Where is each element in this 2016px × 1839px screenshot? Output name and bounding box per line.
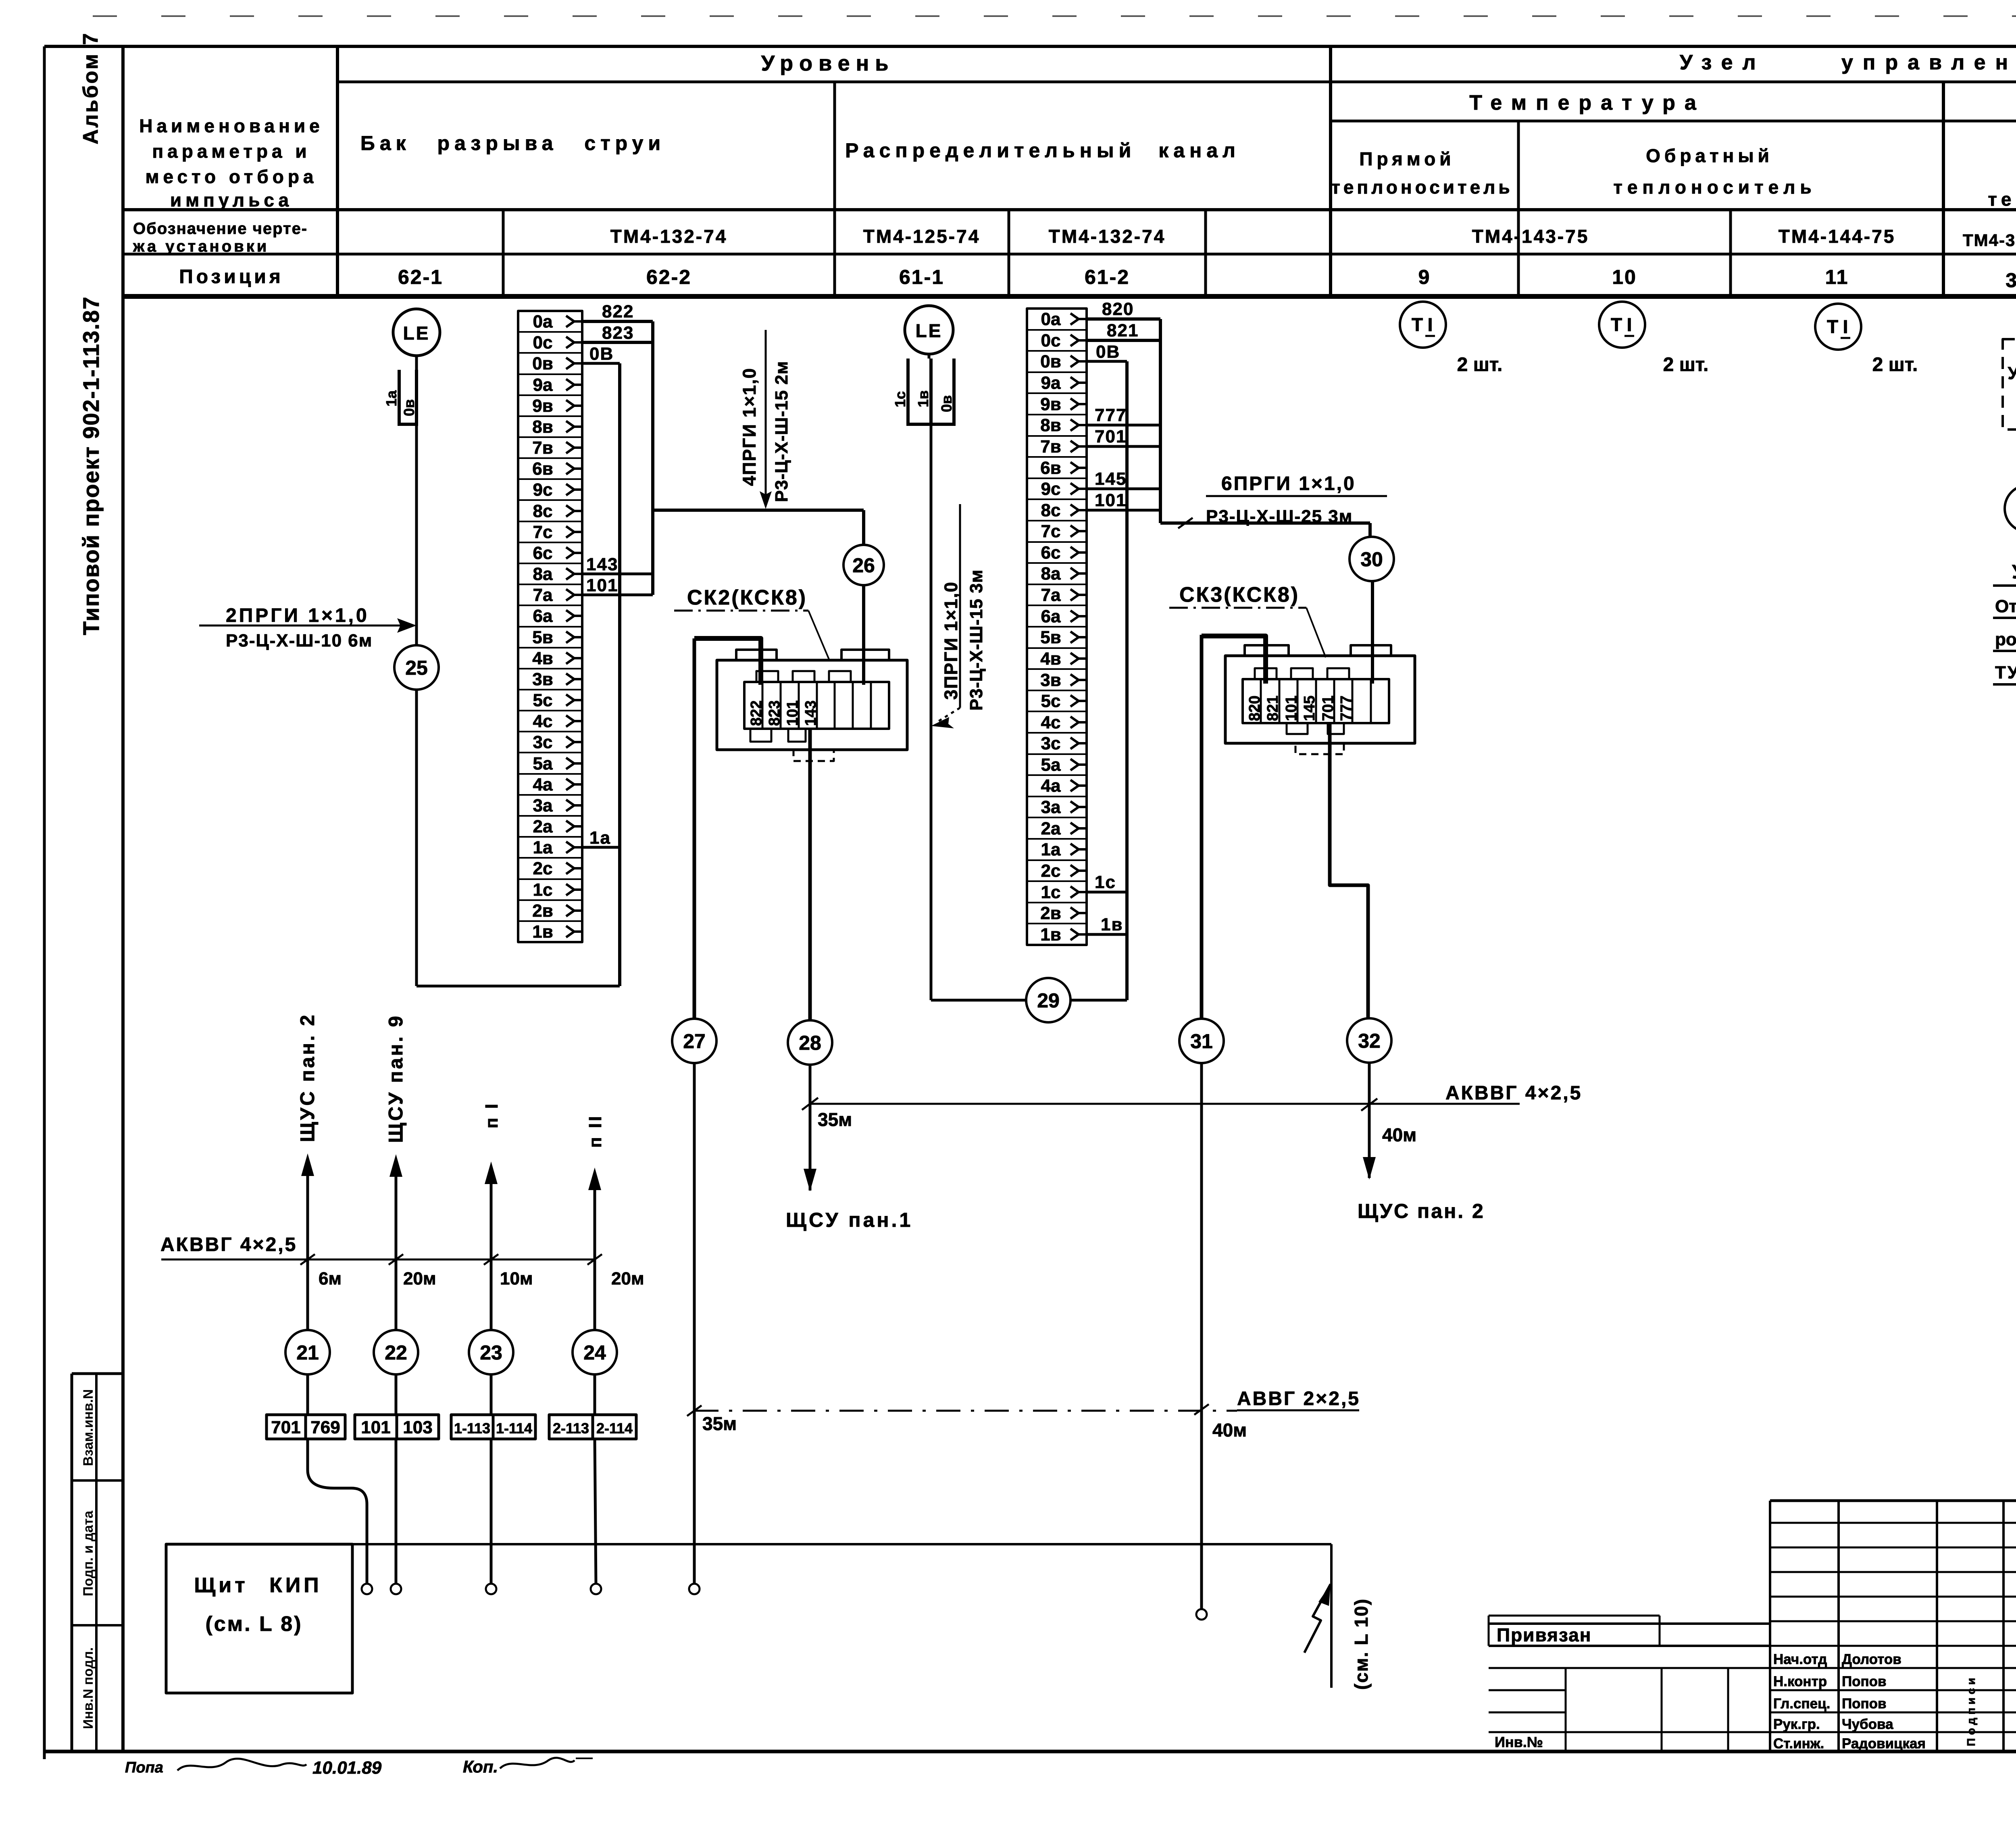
svg-text:28: 28 [799,1032,821,1054]
svg-text:Нач.отд: Нач.отд [1773,1651,1827,1667]
svg-text:9с: 9с [533,480,553,500]
svg-text:20м: 20м [403,1269,436,1289]
svg-text:Попов: Попов [1842,1696,1887,1712]
svg-text:1с: 1с [1095,872,1116,892]
svg-text:Температура: Температура [1469,91,1706,115]
svg-text:теплоноситель: теплоноситель [1613,177,1816,198]
svg-text:30: 30 [1360,548,1383,571]
svg-text:1а: 1а [533,838,553,857]
svg-text:1с: 1с [1041,882,1061,902]
svg-text:31: 31 [1190,1030,1213,1053]
svg-text:822: 822 [748,701,765,726]
svg-text:820: 820 [1102,299,1134,319]
svg-text:импульса: импульса [170,190,293,211]
svg-text:0в: 0в [401,399,417,416]
svg-text:ТМ4-125-74: ТМ4-125-74 [863,226,981,247]
svg-text:0в: 0в [1040,352,1061,371]
svg-text:Узел управления: Узел управления [1680,51,2016,74]
svg-text:701: 701 [271,1418,300,1437]
svg-text:23: 23 [480,1341,502,1364]
svg-text:1а: 1а [383,390,400,407]
svg-text:теплоноситель: теплоноситель [1988,189,2016,210]
svg-text:Радовицкая: Радовицкая [1842,1736,1926,1751]
svg-text:9в: 9в [1040,394,1061,414]
svg-text:I: I [1428,314,1433,335]
svg-text:1с: 1с [533,880,553,900]
svg-text:Инв.N подл.: Инв.N подл. [81,1647,96,1729]
svg-text:61-2: 61-2 [1085,266,1130,288]
svg-text:Бак разрыва струи: Бак разрыва струи [360,132,665,154]
svg-text:АКВВГ 4×2,5: АКВВГ 4×2,5 [1445,1082,1582,1104]
svg-text:101: 101 [586,575,618,595]
svg-text:143: 143 [586,555,618,574]
svg-text:9а: 9а [533,375,553,395]
svg-text:7в: 7в [1040,437,1061,457]
svg-text:Подписи: Подписи [1965,1674,1977,1746]
svg-text:0В: 0В [1096,342,1120,362]
svg-text:3в: 3в [532,669,553,689]
svg-text:6а: 6а [1041,607,1061,626]
svg-text:2а: 2а [1041,819,1061,838]
svg-text:0в: 0в [532,354,553,373]
svg-text:3с: 3с [1041,734,1061,753]
svg-text:9: 9 [1418,266,1431,288]
svg-text:Узел: Узел [2008,363,2016,383]
svg-text:3а: 3а [533,796,553,815]
svg-text:10.01.89: 10.01.89 [312,1758,382,1778]
svg-text:5с: 5с [533,690,553,710]
svg-text:Коп.: Коп. [463,1757,498,1776]
svg-text:40м: 40м [1212,1420,1247,1441]
svg-text:ТМ4-132-74: ТМ4-132-74 [610,226,728,247]
svg-text:8а: 8а [1041,564,1061,584]
svg-text:0В: 0В [589,344,614,364]
svg-text:ЩУС пан. 2: ЩУС пан. 2 [1358,1200,1485,1222]
svg-text:АВВГ 2×2,5: АВВГ 2×2,5 [1237,1388,1360,1409]
svg-text:101: 101 [361,1418,390,1437]
svg-text:4в: 4в [532,648,553,668]
svg-text:101: 101 [1283,696,1300,721]
svg-text:2с: 2с [533,859,553,878]
svg-text:параметра и: параметра и [152,141,310,162]
svg-text:11: 11 [1825,266,1849,288]
svg-text:8в: 8в [1040,415,1061,435]
svg-text:2 шт.: 2 шт. [1457,354,1503,375]
svg-text:ройство 16-225У: ройство 16-225У [1995,630,2016,649]
svg-text:5с: 5с [1041,691,1061,711]
svg-text:0а: 0а [1041,309,1061,329]
svg-text:ТМ4-144-75: ТМ4-144-75 [1779,226,1896,247]
svg-text:143: 143 [802,701,819,726]
svg-text:ТМ4-3138-70: ТМ4-3138-70 [1963,231,2016,250]
svg-text:4с: 4с [1041,713,1061,732]
svg-text:821: 821 [1264,696,1281,721]
svg-text:8а: 8а [533,564,553,584]
svg-text:0в: 0в [938,395,955,412]
svg-text:8с: 8с [533,501,553,521]
svg-text:27: 27 [683,1030,706,1053]
svg-text:9в: 9в [532,396,553,416]
svg-text:35м: 35м [818,1109,852,1130]
svg-text:1-114: 1-114 [496,1420,532,1437]
svg-text:7а: 7а [1041,585,1061,605]
svg-text:2в: 2в [532,901,553,921]
svg-text:7с: 7с [533,522,553,542]
svg-text:103: 103 [403,1418,432,1437]
svg-text:820: 820 [1246,696,1263,721]
svg-text:20м: 20м [611,1269,644,1289]
svg-text:7а: 7а [533,585,553,605]
svg-text:35м: 35м [702,1413,737,1434]
svg-text:Привязан: Привязан [1497,1624,1592,1645]
svg-text:Попа: Попа [125,1759,163,1776]
svg-text:Позиция: Позиция [179,266,284,288]
svg-text:Прямой: Прямой [1359,148,1455,169]
svg-text:I: I [1843,316,1848,337]
svg-text:777: 777 [1338,696,1355,721]
svg-text:СК2(КСК8): СК2(КСК8) [687,586,807,609]
svg-text:Р3-Ц-Х-Ш-15 3м: Р3-Ц-Х-Ш-15 3м [966,569,986,711]
svg-text:Рук.гр.: Рук.гр. [1773,1716,1820,1732]
svg-text:теплоноситель: теплоноситель [1331,177,1513,198]
svg-text:145: 145 [1301,696,1318,721]
svg-text:Т: Т [1611,314,1622,335]
svg-text:3в: 3в [1040,670,1061,690]
svg-text:Р3-Ц-Х-Ш-10 6м: Р3-Ц-Х-Ш-10 6м [226,631,373,651]
svg-text:2в: 2в [1040,903,1061,923]
svg-text:ТМ4-143-75: ТМ4-143-75 [1472,226,1589,247]
svg-text:8с: 8с [1041,500,1061,520]
svg-text:(см. L 8): (см. L 8) [205,1612,302,1636]
svg-text:701: 701 [1320,696,1337,721]
svg-text:1в: 1в [1040,925,1061,945]
svg-text:2ПРГИ 1×1,0: 2ПРГИ 1×1,0 [226,605,369,626]
svg-text:32: 32 [1358,1030,1381,1052]
svg-text:2а: 2а [533,817,553,836]
svg-text:4а: 4а [1041,776,1061,796]
svg-text:1с: 1с [892,391,908,407]
svg-text:Подп. и дата: Подп. и дата [81,1510,96,1596]
svg-text:2 шт.: 2 шт. [1663,354,1709,375]
svg-text:24: 24 [583,1341,606,1364]
svg-text:62-1: 62-1 [398,266,443,288]
svg-text:1в: 1в [915,390,931,407]
svg-text:Т: Т [1412,314,1423,335]
svg-text:СК3(КСК8): СК3(КСК8) [1179,583,1300,607]
svg-text:Инв.№: Инв.№ [1495,1734,1543,1750]
svg-text:6с: 6с [1041,543,1061,563]
svg-text:Наименование: Наименование [139,115,323,136]
svg-text:101: 101 [784,701,801,726]
svg-text:0а: 0а [533,312,553,332]
svg-text:Обратный: Обратный [1646,145,1773,166]
svg-text:Типовой проект 902-1-113.87: Типовой проект 902-1-113.87 [78,296,104,635]
svg-text:АКВВГ 4×2,5: АКВВГ 4×2,5 [160,1234,297,1255]
svg-text:4с: 4с [533,711,553,731]
svg-text:Р3-Ц-Х-Ш-15 2м: Р3-Ц-Х-Ш-15 2м [772,361,791,502]
svg-text:4ПРГИ 1×1,0: 4ПРГИ 1×1,0 [739,367,760,486]
svg-text:29: 29 [1037,989,1060,1012]
svg-text:9с: 9с [1041,479,1061,499]
svg-text:145: 145 [1095,469,1127,489]
svg-text:823: 823 [602,323,634,343]
svg-text:п II: п II [585,1114,605,1148]
svg-text:5в: 5в [1040,628,1061,647]
svg-text:Т: Т [1827,316,1838,337]
svg-text:Распределительный канал: Распределительный канал [845,139,1240,162]
svg-text:ЩСУ пан. 9: ЩСУ пан. 9 [385,1014,407,1143]
svg-text:место отбора: место отбора [145,166,317,187]
svg-text:2с: 2с [1041,861,1061,881]
svg-text:777: 777 [1095,405,1127,425]
svg-text:2 шт.: 2 шт. [1872,354,1918,375]
svg-text:I: I [1627,314,1632,335]
svg-text:769: 769 [310,1418,340,1437]
svg-text:7с: 7с [1041,521,1061,541]
svg-text:3с: 3с [533,732,553,752]
svg-text:LE: LE [916,320,943,341]
svg-text:4в: 4в [1040,649,1061,669]
svg-text:10м: 10м [500,1269,533,1289]
svg-text:8в: 8в [532,417,553,437]
svg-text:3а: 3а [1041,797,1061,817]
svg-text:5а: 5а [1041,755,1061,775]
svg-text:6в: 6в [532,459,553,479]
svg-text:3ПРГИ 1×1,0: 3ПРГИ 1×1,0 [941,581,961,700]
svg-text:Попов: Попов [1842,1674,1887,1689]
svg-text:101: 101 [1095,490,1127,510]
svg-text:жа установки: жа установки [133,238,269,255]
svg-text:5в: 5в [532,628,553,647]
svg-text:7в: 7в [532,438,553,458]
svg-text:ТУ36.1258-76: ТУ36.1258-76 [1995,663,2016,682]
svg-text:35: 35 [2006,269,2016,292]
svg-text:6в: 6в [1040,458,1061,478]
svg-text:61-1: 61-1 [899,266,944,288]
svg-text:ТМ4-132-74: ТМ4-132-74 [1049,226,1166,247]
svg-text:(см. L 10): (см. L 10) [1351,1598,1372,1690]
svg-text:Гл.спец.: Гл.спец. [1773,1696,1830,1712]
svg-text:40м: 40м [1382,1124,1416,1145]
svg-text:62-2: 62-2 [646,266,691,288]
svg-text:Уровень: Уровень [761,51,895,75]
svg-text:1в: 1в [1101,915,1123,934]
svg-text:6ПРГИ 1×1,0: 6ПРГИ 1×1,0 [1221,473,1356,494]
svg-text:Долотов: Долотов [1842,1651,1901,1667]
svg-text:2-114: 2-114 [596,1420,633,1437]
svg-text:6с: 6с [533,543,553,563]
svg-text:Чубова: Чубова [1842,1716,1893,1732]
svg-text:1а: 1а [589,828,611,848]
svg-text:823: 823 [766,701,783,726]
svg-text:10: 10 [1612,266,1637,288]
svg-text:ЩУС пан. 2: ЩУС пан. 2 [297,1013,319,1142]
svg-text:Ст.инж.: Ст.инж. [1773,1736,1824,1751]
svg-text:6м: 6м [319,1269,342,1289]
svg-text:9а: 9а [1041,373,1061,393]
svg-text:1-113: 1-113 [454,1420,490,1437]
svg-text:п I: п I [482,1102,502,1128]
svg-text:LE: LE [403,323,430,344]
svg-text:1в: 1в [532,922,553,942]
svg-text:Р3-Ц-Х-Ш-25 3м: Р3-Ц-Х-Ш-25 3м [1206,507,1353,526]
svg-text:ЩСУ пан.1: ЩСУ пан.1 [786,1209,913,1231]
svg-text:821: 821 [1107,321,1139,340]
svg-text:701: 701 [1095,427,1127,446]
svg-text:22: 22 [385,1341,407,1364]
svg-text:25: 25 [405,657,428,679]
svg-text:0с: 0с [533,333,553,352]
svg-text:1а: 1а [1041,840,1061,859]
svg-text:Узел „II“: Узел „II“ [2012,561,2016,583]
svg-text:0с: 0с [1041,331,1061,350]
svg-text:Отборное уст-: Отборное уст- [1995,596,2016,616]
svg-text:Щит КИП: Щит КИП [194,1574,322,1597]
svg-text:Обозначение черте-: Обозначение черте- [133,220,308,238]
svg-text:4а: 4а [533,775,553,794]
svg-text:Н.контр: Н.контр [1773,1674,1827,1689]
svg-text:5а: 5а [533,754,553,774]
svg-text:822: 822 [602,302,634,321]
svg-text:21: 21 [296,1341,319,1364]
svg-text:Взам.инв.N: Взам.инв.N [81,1389,96,1466]
svg-text:6а: 6а [533,606,553,626]
svg-text:Альбом 7: Альбом 7 [79,31,102,144]
svg-text:26: 26 [852,554,875,577]
svg-text:2-113: 2-113 [553,1420,589,1437]
